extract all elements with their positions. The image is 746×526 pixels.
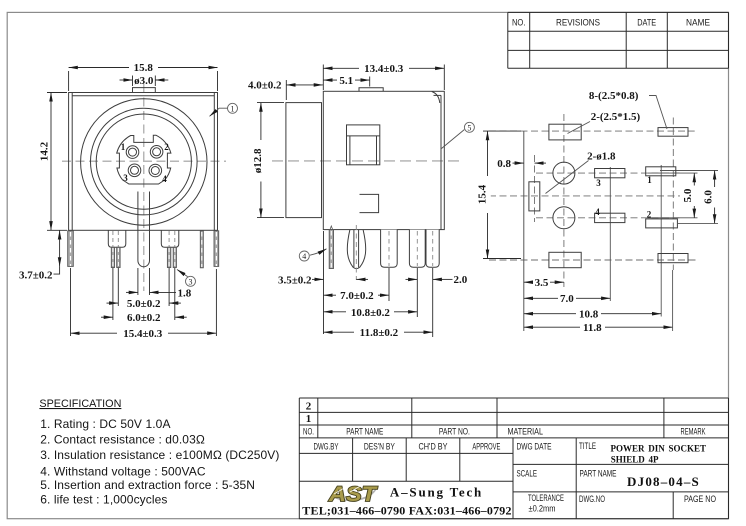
svg-text:PART NAME: PART NAME (580, 469, 617, 479)
dim 15.8 (69, 71, 218, 91)
dim 3.0 (120, 76, 169, 87)
svg-text:DES'N BY: DES'N BY (364, 441, 395, 451)
svg-text:3: 3 (596, 178, 601, 188)
svg-text:5.1: 5.1 (339, 75, 353, 87)
svg-text:3: 3 (189, 277, 193, 286)
svg-text:REMARK: REMARK (681, 427, 706, 437)
svg-text:APPROVE: APPROVE (472, 441, 500, 451)
pad 2 (646, 219, 678, 228)
svg-text:PART NO.: PART NO. (439, 427, 470, 437)
svg-text:8-(2.5*0.8): 8-(2.5*0.8) (589, 90, 639, 102)
dim 15.4 (71, 268, 217, 336)
svg-text:13.4±0.3: 13.4±0.3 (364, 63, 404, 75)
pin B (center pin side) (347, 230, 365, 269)
extension for 11.8 (672, 270, 674, 331)
bottom center pad (549, 252, 581, 267)
boss pins (111, 247, 176, 267)
svg-text:ø3.0: ø3.0 (134, 75, 154, 87)
label circle 3 (186, 276, 196, 286)
svg-text:A–Sung Tech: A–Sung Tech (390, 485, 483, 500)
pin C (381, 230, 398, 268)
AST logo (328, 483, 379, 506)
dim 10.8 pcb (524, 313, 661, 315)
svg-text:1: 1 (647, 175, 652, 185)
pad 1 (646, 167, 676, 176)
svg-text:3.7±0.2: 3.7±0.2 (19, 270, 53, 282)
front view middle circle (91, 108, 198, 215)
side view centerline (272, 160, 460, 162)
dim 2.0 (406, 278, 453, 280)
pin 1 hole (126, 146, 139, 159)
svg-text:SCALE: SCALE (517, 469, 538, 479)
top right pad (658, 128, 688, 137)
front view shield body (69, 93, 218, 231)
revisions table (508, 12, 729, 68)
pcb reference line (523, 131, 525, 331)
svg-text:11.8±0.2: 11.8±0.2 (360, 327, 399, 339)
dim 11.8 (432, 268, 434, 337)
svg-text:1: 1 (121, 142, 126, 152)
dim 3.5 pcb (524, 281, 564, 283)
dim 10.8 (416, 268, 418, 317)
right shield tab (214, 231, 219, 267)
latch window (347, 125, 380, 165)
svg-text:1: 1 (306, 413, 312, 425)
extension lines for 5.0/6.0 (648, 171, 718, 224)
dim 11.8 pcb (524, 326, 673, 328)
svg-text:5.0±0.2: 5.0±0.2 (127, 298, 161, 310)
svg-text:7.0: 7.0 (560, 293, 574, 305)
pin numbers (121, 142, 170, 184)
dim 13.4 (323, 65, 444, 91)
left side pad (529, 182, 540, 211)
pin 3 hole (128, 164, 141, 177)
svg-text:DWG.BY: DWG.BY (314, 441, 339, 451)
dim 7.0 pcb (524, 297, 611, 299)
dim 0.8 (513, 162, 547, 164)
dim 14.2 (47, 93, 67, 231)
svg-text:SPECIFICATION: SPECIFICATION (39, 398, 121, 410)
svg-text:±0.2mm: ±0.2mm (529, 504, 556, 514)
svg-text:4: 4 (162, 174, 167, 184)
svg-text:1. Rating : DC 50V 1.0A: 1. Rating : DC 50V 1.0A (40, 417, 170, 431)
svg-text:14.2: 14.2 (39, 141, 51, 161)
svg-text:TEL;031–466–0790 FAX:031–466–0: TEL;031–466–0790 FAX:031–466–0792 (302, 504, 511, 518)
svg-text:2: 2 (647, 210, 652, 220)
svg-text:7.0±0.2: 7.0±0.2 (340, 290, 374, 302)
svg-text:NAME: NAME (686, 18, 710, 28)
front view centerline horizontal (62, 160, 226, 162)
bottom right pad (658, 254, 688, 263)
pad labels (595, 175, 652, 220)
left shield tab (68, 231, 74, 267)
pin E (426, 230, 439, 268)
svg-text:POWER DIN SOCKET: POWER DIN SOCKET (611, 443, 707, 453)
side view body (323, 91, 444, 229)
specification (39, 398, 279, 506)
hole 1 (553, 162, 575, 184)
svg-text:10.8±0.2: 10.8±0.2 (351, 307, 391, 319)
svg-text:PAGE NO: PAGE NO (684, 494, 716, 504)
dim 15.4 pcb (483, 131, 521, 258)
svg-text:CH'D BY: CH'D BY (419, 441, 448, 451)
svg-text:DJ08–04–S: DJ08–04–S (627, 474, 700, 489)
pad column solid lines (609, 167, 611, 301)
pin A (shield leg) (330, 226, 333, 230)
side view top tab (359, 88, 383, 92)
pcb dashed grid lines (489, 114, 699, 287)
svg-text:5.0: 5.0 (682, 188, 694, 202)
svg-text:10.8: 10.8 (579, 309, 599, 321)
svg-text:11.8: 11.8 (583, 322, 602, 334)
svg-text:DWG DATE: DWG DATE (517, 441, 552, 451)
svg-text:2: 2 (164, 142, 169, 152)
thin shield pin (200, 231, 203, 268)
label circle 5 (464, 122, 474, 132)
svg-text:6. life test : 1,000cycles: 6. life test : 1,000cycles (40, 492, 167, 506)
pin D (409, 230, 425, 268)
svg-text:REVISIONS: REVISIONS (556, 18, 600, 28)
front view top tab (3.0 boss) (133, 88, 156, 93)
top center pad (549, 124, 581, 140)
label circle 4 (299, 251, 309, 261)
svg-text:SHIELD 4P: SHIELD 4P (611, 455, 659, 465)
svg-text:DWG.NO: DWG.NO (579, 494, 605, 504)
title block (299, 12, 728, 518)
side view barrel (286, 103, 322, 218)
svg-text:15.8: 15.8 (134, 62, 154, 74)
svg-text:2-ø1.8: 2-ø1.8 (587, 151, 616, 163)
front view outer circle (81, 99, 207, 225)
dim 6.0 pcb (714, 171, 716, 224)
svg-text:6.0±0.2: 6.0±0.2 (127, 312, 161, 324)
dim 5.1 (369, 77, 371, 87)
svg-text:4: 4 (302, 252, 306, 261)
svg-text:ø12.8: ø12.8 (252, 148, 264, 173)
svg-text:3: 3 (123, 173, 128, 183)
dim 1.8 (126, 268, 176, 295)
svg-text:PART NAME: PART NAME (346, 427, 383, 437)
dim 7.0 (388, 268, 390, 301)
dim 5.0 (107, 268, 181, 306)
svg-text:TITLE: TITLE (579, 441, 596, 451)
left pin boss (108, 230, 126, 247)
front view keyed shield opening (117, 135, 171, 184)
svg-text:15.4±0.3: 15.4±0.3 (123, 328, 163, 340)
svg-text:2.0: 2.0 (454, 274, 468, 286)
dim 5.0 pcb (693, 173, 695, 218)
svg-text:2-(2.5*1.5): 2-(2.5*1.5) (591, 111, 641, 123)
side notch (360, 194, 379, 212)
svg-text:4. Withstand voltage : 500VAC: 4. Withstand voltage : 500VAC (40, 465, 206, 479)
label circle 1 (228, 103, 238, 113)
svg-text:1.8: 1.8 (178, 287, 192, 299)
svg-text:15.4: 15.4 (476, 184, 488, 204)
front view inner circle (96, 114, 191, 209)
svg-text:NO.: NO. (303, 427, 314, 437)
pin 2 hole (150, 146, 163, 159)
dim 12.8 (257, 103, 284, 218)
svg-text:2: 2 (306, 401, 312, 413)
right pin boss (161, 230, 179, 247)
dim 3.7 (59, 230, 61, 266)
dim 3.5 (312, 231, 368, 334)
svg-text:TOLERANCE: TOLERANCE (528, 493, 564, 503)
svg-text:DATE: DATE (637, 18, 656, 28)
dim 4.0 (285, 80, 287, 100)
svg-text:1: 1 (231, 104, 235, 113)
svg-text:5. Insertion and extraction fo: 5. Insertion and extraction force : 5-35… (40, 478, 255, 492)
svg-text:MATERIAL: MATERIAL (508, 427, 544, 437)
svg-text:2. Contact resistance : d0.03Ω: 2. Contact resistance : d0.03Ω (40, 433, 205, 447)
svg-text:3.5: 3.5 (535, 277, 549, 289)
pin 4 hole (149, 164, 162, 177)
dim 6.0 (101, 268, 187, 320)
front view centerline vertical (143, 84, 145, 291)
svg-text:0.8: 0.8 (497, 158, 511, 170)
svg-text:NO.: NO. (512, 18, 526, 28)
svg-text:3.5±0.2: 3.5±0.2 (278, 274, 312, 286)
svg-text:5: 5 (467, 123, 471, 132)
svg-text:4: 4 (595, 207, 600, 217)
svg-text:3. Insulation resistance : e10: 3. Insulation resistance : e100MΩ (DC250… (40, 448, 279, 462)
pad 4 (595, 213, 625, 222)
svg-text:6.0: 6.0 (702, 190, 714, 204)
center shaft (138, 192, 150, 267)
pad 3 (595, 169, 625, 178)
hole 2 (553, 207, 575, 229)
svg-text:4.0±0.2: 4.0±0.2 (248, 80, 282, 92)
